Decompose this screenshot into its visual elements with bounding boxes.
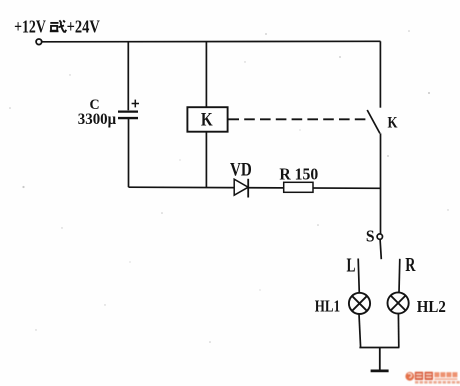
svg-text:K: K: [388, 115, 398, 132]
supply label +12V / +24V: [14, 17, 100, 37]
wire: relay branch lower: [205, 132, 207, 188]
switch S pivot: [377, 234, 382, 239]
svg-text:R 150: R 150: [279, 165, 318, 184]
svg-text:L: L: [347, 256, 356, 277]
wire: capacitor branch lower: [128, 118, 130, 187]
diode VD: [234, 179, 248, 198]
wire: lower horizontal rail: [129, 187, 381, 188]
svg-text:K: K: [201, 109, 213, 130]
relay coil K: [187, 107, 227, 132]
capacitor polarity +: [132, 100, 139, 108]
wire: top rail: [42, 40, 381, 43]
svg-text:3300μ: 3300μ: [78, 111, 116, 128]
glyph 或 drawn as strokes: [50, 20, 66, 32]
wire: R lamp lead: [398, 259, 401, 293]
svg-text:VD: VD: [230, 159, 252, 180]
ground: [371, 348, 389, 371]
lamp HL2: [388, 292, 409, 313]
wire: L lamp lead: [358, 259, 359, 294]
relay contact K (switch blade): [367, 110, 380, 133]
wire: capacitor branch upper: [127, 42, 129, 111]
wire: bottom tie bar: [359, 347, 399, 349]
wire: right branch mid: [380, 133, 382, 233]
switch S blade: [380, 240, 381, 260]
wire: right branch upper: [379, 41, 381, 107]
input terminal: [36, 39, 42, 45]
svg-text:+12V: +12V: [14, 17, 46, 37]
resistor R 150: [284, 182, 313, 192]
capacitor C 3300&#956;: [118, 112, 138, 119]
svg-text:S: S: [366, 226, 375, 245]
wire: relay branch upper: [205, 41, 207, 107]
mechanical link (dashed) relay to contact: [228, 118, 366, 120]
watermark logo: [405, 372, 459, 384]
wire: HL1 lower lead: [359, 314, 361, 348]
svg-text:HL1: HL1: [315, 297, 340, 316]
lamp HL1: [349, 293, 370, 314]
wire: HL2 lower lead: [397, 314, 399, 348]
svg-text:R: R: [405, 255, 416, 276]
svg-text:+24V: +24V: [67, 17, 100, 37]
svg-text:HL2: HL2: [417, 297, 446, 316]
